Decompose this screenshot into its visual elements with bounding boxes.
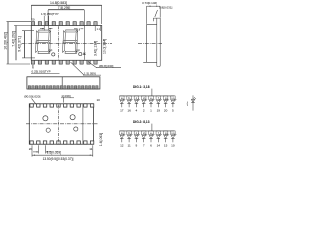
svg-text:13.50(9.5)[0.53(0.37)]: 13.50(9.5)[0.53(0.37)] bbox=[43, 157, 74, 161]
dimension 3.41[.134] DP offset bbox=[83, 54, 86, 56]
back view inner line bbox=[82, 104, 84, 144]
svg-text:1: 1 bbox=[150, 109, 152, 113]
back view hole D bbox=[74, 127, 78, 131]
wire DIG.1 common feed bbox=[151, 89, 153, 96]
back view vertical centerline bbox=[57, 105, 59, 144]
front view package outline bbox=[31, 26, 101, 61]
svg-text:Ø0.50[.020]: Ø0.50[.020] bbox=[24, 95, 40, 99]
svg-text:0.8[0.031]: 0.8[0.031] bbox=[159, 5, 173, 9]
LED segment b DIG.2 pin 11 bbox=[127, 131, 133, 148]
svg-text:4: 4 bbox=[136, 109, 138, 113]
LED segment f DIG.1 pin 19 bbox=[156, 96, 162, 113]
svg-text:DIG.2: 8,13: DIG.2: 8,13 bbox=[133, 120, 150, 124]
edge view center divider bbox=[61, 77, 63, 89]
svg-text:7: 7 bbox=[143, 144, 145, 148]
svg-text:3.73[0.146]: 3.73[0.146] bbox=[142, 1, 157, 5]
svg-text:15: 15 bbox=[164, 144, 168, 148]
svg-text:3.41[.134]: 3.41[.134] bbox=[93, 41, 97, 56]
LED segment a DIG.1 pin 17 bbox=[120, 96, 126, 113]
digit 1 seven-segment outline bbox=[36, 30, 51, 53]
LED segment DP DIG.2 pin 10 bbox=[171, 131, 177, 148]
leader dia 0.8[.030] pad width bbox=[88, 62, 97, 68]
svg-text:DIG.1: 3,18: DIG.1: 3,18 bbox=[133, 85, 150, 89]
svg-text:2: 2 bbox=[143, 109, 145, 113]
LED segment e DIG.2 pin 6 bbox=[149, 131, 155, 148]
svg-text:16: 16 bbox=[127, 109, 131, 113]
digit 2 seven-segment outline bbox=[63, 30, 78, 53]
left extension lines bbox=[7, 21, 32, 23]
back view hole B bbox=[70, 115, 75, 120]
dimension 9.42[.371] digit height bbox=[23, 31, 25, 58]
pad dim 0.8 bbox=[74, 28, 77, 30]
back view hole C bbox=[46, 128, 50, 132]
vertical extension line of 7.5 dim bbox=[83, 10, 85, 60]
front view bottom castellation pads bbox=[31, 60, 97, 64]
dimension 10.2[0.402] outer height bbox=[7, 22, 9, 64]
svg-text:11: 11 bbox=[127, 144, 130, 148]
side view castellation pad column bbox=[153, 18, 160, 66]
svg-text:19: 19 bbox=[157, 109, 161, 113]
dimension 7.42[.292] body height bbox=[15, 26, 17, 61]
svg-text:11: 11 bbox=[89, 147, 92, 151]
svg-text:7.42[.292]: 7.42[.292] bbox=[11, 31, 15, 47]
svg-text:1.5[.059]: 1.5[.059] bbox=[84, 71, 96, 75]
LED segment e DIG.1 pin 1 bbox=[149, 96, 155, 113]
back view dim 13.5(9.5) bbox=[32, 154, 93, 156]
svg-text:12: 12 bbox=[120, 144, 124, 148]
front view top castellation pads bbox=[31, 22, 97, 26]
LED segment a DIG.2 pin 12 bbox=[120, 131, 126, 148]
wire DIG.2 common feed bbox=[151, 124, 153, 131]
svg-text:17: 17 bbox=[120, 109, 124, 113]
back view outline bbox=[29, 104, 93, 144]
lone LED symbol right bbox=[187, 95, 196, 110]
svg-text:10: 10 bbox=[97, 98, 101, 102]
LED segment b DIG.1 pin 16 bbox=[127, 96, 133, 113]
back view bottom notches bbox=[30, 141, 94, 144]
svg-text:DP: DP bbox=[49, 49, 53, 53]
svg-text:10.2[0.402]: 10.2[0.402] bbox=[3, 32, 7, 50]
decimal point DP2 circle bbox=[79, 52, 82, 55]
svg-text:1.5[.059]TYP: 1.5[.059]TYP bbox=[41, 12, 59, 16]
decimal point DP1 circle bbox=[52, 53, 55, 56]
svg-text:Ø0.8[.030]: Ø0.8[.030] bbox=[99, 64, 113, 68]
back view top notches bbox=[30, 104, 94, 107]
LED segment f DIG.2 pin 14 bbox=[156, 131, 162, 148]
LED segment c DIG.2 pin 9 bbox=[134, 131, 140, 148]
svg-text:1.6[.063]: 1.6[.063] bbox=[99, 133, 103, 146]
side view body outline bbox=[143, 25, 157, 63]
LED segment DP DIG.1 pin 5 bbox=[171, 96, 177, 113]
leader 1.5[.059] pad pitch bbox=[71, 62, 85, 75]
svg-text:9.42[.371]: 9.42[.371] bbox=[18, 36, 22, 52]
svg-text:10.0[.394]: 10.0[.394] bbox=[103, 39, 107, 54]
back view dim 1.5[0.059] bbox=[33, 151, 38, 153]
back view hole A bbox=[43, 116, 48, 121]
svg-text:20: 20 bbox=[31, 17, 35, 21]
svg-text:7.5[.295]: 7.5[.295] bbox=[58, 6, 71, 10]
svg-text:9: 9 bbox=[136, 144, 138, 148]
vertical centerline digit cell bbox=[57, 26, 59, 60]
LED segment c DIG.1 pin 4 bbox=[134, 96, 140, 113]
wire DIG.1 anode bus bbox=[120, 95, 175, 97]
LED segment d DIG.1 pin 2 bbox=[141, 96, 147, 113]
LED segment g DIG.1 pin 20 bbox=[163, 96, 169, 113]
edge view body outline bbox=[27, 77, 100, 89]
svg-text:5: 5 bbox=[172, 109, 174, 113]
wire DIG.2 anode bus bbox=[120, 130, 175, 132]
edge view pad row bbox=[28, 86, 98, 89]
svg-text:6: 6 bbox=[150, 144, 152, 148]
svg-text:1[.039]: 1[.039] bbox=[61, 94, 70, 98]
LED segment d DIG.2 pin 7 bbox=[141, 131, 147, 148]
svg-text:14.8[0.583]: 14.8[0.583] bbox=[50, 1, 67, 5]
svg-text:1.5[0.059]: 1.5[0.059] bbox=[47, 151, 61, 155]
horizontal centerline bbox=[22, 42, 113, 44]
svg-text:DP: DP bbox=[76, 49, 80, 53]
svg-text:10: 10 bbox=[171, 144, 175, 148]
back view horizontal centerline bbox=[26, 123, 98, 125]
svg-text:20: 20 bbox=[164, 109, 168, 113]
svg-text:14: 14 bbox=[157, 144, 161, 148]
svg-text:0.25[.010]TYP: 0.25[.010]TYP bbox=[32, 70, 51, 74]
LED segment g DIG.2 pin 15 bbox=[163, 131, 169, 148]
